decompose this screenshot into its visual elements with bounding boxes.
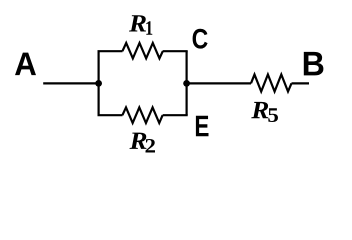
node A terminal label	[15, 53, 36, 76]
resistor R5	[251, 75, 292, 92]
junction dot left node	[95, 80, 102, 87]
label R1 letter R	[129, 15, 146, 31]
wire right vertical branch	[186, 51, 188, 115]
node C label	[193, 29, 208, 49]
wire left vertical branch	[97, 51, 99, 115]
label R5 letter R	[251, 102, 268, 118]
wire top rail right	[163, 50, 188, 52]
wire right junction to R5	[187, 82, 251, 84]
resistor R1	[122, 43, 162, 58]
junction dot right node	[183, 80, 190, 87]
wire bottom rail left	[98, 114, 123, 116]
wire A to left junction	[43, 82, 99, 84]
node E label	[196, 116, 209, 137]
label R2 letter R	[130, 133, 147, 149]
label R1 subscript 1	[146, 21, 152, 35]
wire top rail left	[98, 50, 123, 52]
resistor R2	[122, 107, 162, 123]
label R2 subscript 2	[146, 139, 156, 153]
wire bottom rail right	[163, 114, 188, 116]
node B terminal label	[304, 52, 324, 76]
wire R5 to B terminal	[292, 82, 310, 84]
label R5 subscript 5	[268, 108, 278, 122]
